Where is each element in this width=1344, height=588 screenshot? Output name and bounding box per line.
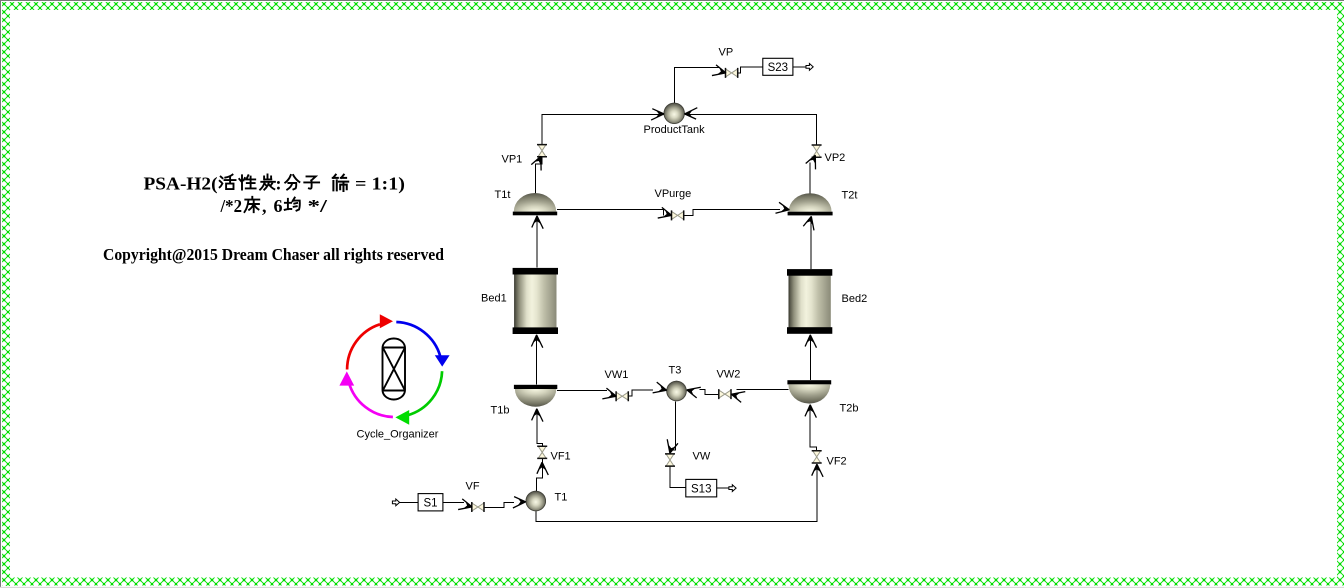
svg-text:VP2: VP2	[825, 152, 846, 164]
wire VW1 to T3 sphere	[628, 390, 653, 396]
arrow below VF1 valve	[537, 462, 548, 475]
svg-text:T2b: T2b	[840, 403, 859, 415]
cycle organizer magenta arrowhead	[339, 371, 354, 385]
title char 筛	[333, 175, 348, 191]
title char 分	[285, 175, 299, 190]
wire VPurge to T2t	[684, 210, 780, 216]
wire T1b to VW1 valve	[557, 389, 607, 391]
svg-text:,: ,	[262, 196, 267, 216]
arrow before VP valve	[712, 65, 728, 79]
outlet open arrow after S23	[806, 64, 813, 71]
arrow before VF valve	[458, 499, 474, 513]
arrow into Bed1 bottom	[531, 334, 542, 347]
title char 活	[220, 175, 236, 190]
border hatch band bottom	[10, 578, 1344, 586]
arrow into Bed2 bottom	[805, 334, 816, 347]
svg-text:/*2: /*2	[220, 196, 242, 216]
svg-text:S1: S1	[423, 497, 437, 509]
title char 性	[239, 175, 255, 189]
border frame gray line left	[0, 0, 1, 588]
arrow below VP2 valve	[805, 152, 821, 169]
arrow into T2t base	[803, 214, 817, 230]
tank T1t dome	[513, 193, 557, 215]
svg-text:VPurge: VPurge	[655, 188, 692, 200]
wire VP2 to T2t top	[809, 163, 811, 194]
wire VW2 to T3 sphere	[700, 390, 719, 395]
svg-text:= 1:1): = 1:1)	[355, 174, 405, 195]
block S1	[418, 494, 443, 511]
wire inlet arrow to S1	[392, 501, 418, 503]
wire T1 bottom to VF2 bottom	[536, 465, 817, 522]
tank T3 sphere	[666, 381, 686, 401]
wire VF1 to T1 sphere	[537, 458, 543, 491]
border frame gray line top	[0, 0, 1344, 1]
wire S1 to VF valve	[443, 501, 464, 503]
column Bed2	[787, 269, 832, 334]
valve VPurge	[672, 210, 684, 220]
arrow into T3 right	[685, 384, 701, 398]
arrow before VPurge valve	[658, 207, 674, 221]
svg-text:VP: VP	[719, 47, 734, 59]
arrow below VP1 valve	[531, 154, 547, 171]
tank T2b bowl	[787, 380, 831, 403]
svg-text::: :	[276, 174, 282, 194]
arrow into T1t base	[532, 215, 543, 228]
arrow into T2b bottom	[805, 404, 816, 417]
valve VF2	[812, 451, 822, 463]
arrow into ProductTank left	[651, 109, 664, 120]
wire VP1 to T1t top	[536, 156, 542, 194]
cycle organizer magenta arc	[349, 383, 393, 417]
outlet open arrow after S13	[729, 485, 736, 492]
tank T2t dome	[788, 193, 833, 215]
svg-text:VW: VW	[693, 451, 711, 463]
border hatch band right	[1337, 10, 1344, 578]
svg-text:S13: S13	[691, 483, 711, 495]
title char 床	[245, 197, 260, 212]
arrow into T3 left	[653, 382, 669, 396]
valve VW2	[719, 389, 731, 399]
wire VP1 riser to ProductTank	[542, 114, 664, 145]
valve VP1	[537, 145, 547, 157]
valve VW	[665, 454, 675, 466]
svg-text:Copyright@2015 Dream Chaser al: Copyright@2015 Dream Chaser all rights r…	[103, 245, 445, 264]
svg-text:PSA-H2(: PSA-H2(	[144, 174, 218, 195]
wire T1t to Bed1 top	[536, 217, 538, 268]
svg-text:VF2: VF2	[827, 456, 847, 468]
wire T1b to VF1 valve	[537, 410, 543, 447]
cycle organizer red arc	[347, 324, 380, 369]
title char 均	[285, 198, 300, 211]
wire S13 to outlet arrow	[717, 487, 730, 489]
arrow into T1b bottom	[532, 408, 543, 421]
wire T3 to VW valve	[670, 401, 675, 452]
cycle organizer column icon	[383, 339, 406, 400]
cycle organizer green arc	[408, 371, 442, 415]
svg-text:Bed1: Bed1	[481, 293, 507, 305]
svg-text:VF: VF	[466, 481, 480, 493]
svg-text:VW2: VW2	[717, 369, 741, 381]
border frame light line bottom	[0, 587, 1344, 588]
svg-text:T1b: T1b	[491, 405, 510, 417]
svg-text:Cycle_Organizer: Cycle_Organizer	[357, 429, 439, 441]
svg-text:S23: S23	[768, 62, 788, 74]
arrow below VF2 valve	[812, 464, 823, 477]
tank T1b bowl	[514, 385, 557, 407]
svg-text:T3: T3	[669, 365, 682, 377]
border hatch band left	[2, 10, 10, 586]
cycle organizer red arrowhead	[380, 314, 393, 328]
wire ProductTank top to VP valve	[675, 68, 720, 104]
svg-text:VP1: VP1	[502, 154, 523, 166]
wire T2b to VF2 valve	[810, 406, 816, 451]
block S13	[686, 479, 717, 497]
block S23	[763, 58, 793, 75]
cycle organizer green arrowhead	[395, 410, 409, 425]
svg-text:VF1: VF1	[551, 451, 571, 463]
svg-text:VW1: VW1	[605, 369, 629, 381]
svg-text:T1t: T1t	[495, 189, 511, 201]
wire T2b to VW2 valve	[737, 388, 789, 390]
cycle organizer blue arc	[396, 322, 440, 356]
valve VP2	[812, 145, 822, 157]
valve VF1	[537, 446, 547, 458]
valve VW1	[616, 391, 628, 401]
wire T1t to VPurge valve	[557, 210, 664, 216]
svg-text:Bed2: Bed2	[842, 293, 868, 305]
inlet open arrow before S1	[392, 499, 399, 506]
arrow before VW1 valve	[602, 388, 618, 402]
wire S23 to outlet arrow	[793, 66, 807, 68]
wire VP2 riser to ProductTank	[685, 114, 817, 145]
svg-text:T2t: T2t	[842, 190, 858, 202]
arrow into ProductTank right	[684, 108, 697, 119]
wire VW to S13	[670, 466, 686, 488]
arrow into T1 left	[513, 497, 526, 508]
column Bed1	[513, 268, 558, 334]
valve VF	[472, 502, 484, 512]
valve VP	[726, 68, 738, 78]
svg-text:ProductTank: ProductTank	[644, 124, 706, 136]
svg-text:T1: T1	[555, 492, 568, 504]
title char 炭	[260, 175, 275, 190]
wire T2t to Bed2 top	[810, 218, 812, 269]
wire VP valve to S23	[738, 67, 763, 73]
arrow above VW valve pointing down	[664, 439, 678, 455]
tank T1 sphere	[526, 491, 546, 511]
title char 子	[304, 176, 319, 188]
wire VF to T1 sphere	[484, 502, 514, 507]
border hatch band top	[2, 2, 1344, 10]
cycle organizer blue arrowhead	[435, 355, 450, 366]
arrow before VW2 valve pointing left	[729, 388, 745, 402]
wire Bed1 to T1b	[536, 335, 538, 385]
svg-text:*/: */	[308, 196, 329, 216]
arrow into T2t from VPurge	[775, 202, 790, 216]
svg-text:6: 6	[274, 196, 283, 216]
wire Bed2 to T2b	[809, 335, 811, 380]
tank ProductTank sphere	[664, 103, 685, 124]
